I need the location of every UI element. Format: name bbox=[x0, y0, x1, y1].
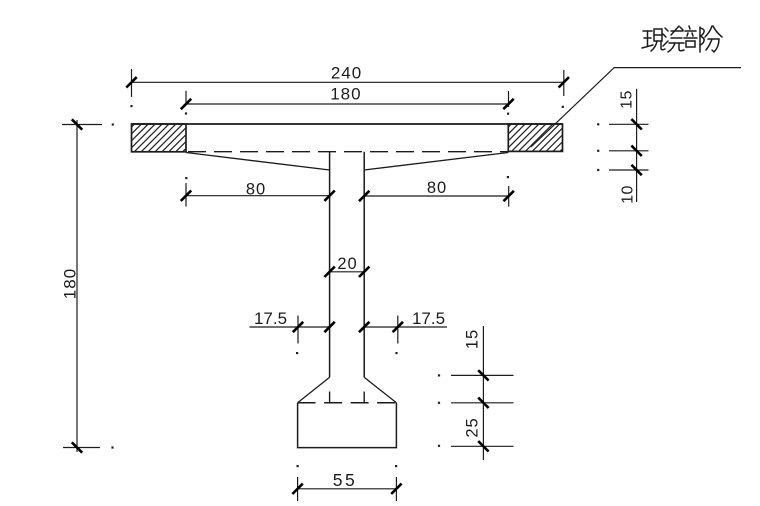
dim 180 vertical left line bbox=[62, 120, 102, 452]
dim 55 ticks bbox=[292, 484, 401, 494]
bulb top hidden dashed edge bbox=[298, 402, 397, 404]
right lower dim ticks bbox=[478, 370, 488, 451]
svg-text:25: 25 bbox=[464, 417, 482, 437]
dashed slab bottom line bbox=[186, 151, 508, 153]
right lower dim group line bbox=[451, 326, 514, 460]
svg-text:15: 15 bbox=[619, 90, 636, 109]
right upper dim dots bbox=[597, 123, 599, 125]
svg-text:55: 55 bbox=[333, 470, 357, 490]
dim 80 left ticks bbox=[181, 191, 335, 201]
svg-text:17.5: 17.5 bbox=[254, 309, 287, 328]
web left edge hidden dash bbox=[329, 392, 331, 403]
dim 55 line bbox=[298, 477, 397, 501]
right lower dim dots bbox=[438, 374, 440, 376]
svg-text:17.5: 17.5 bbox=[412, 309, 445, 328]
dim 240 line bbox=[132, 69, 564, 97]
dim 17.5 right dot bbox=[395, 352, 397, 354]
dim 80 left line bbox=[186, 183, 330, 207]
left chamfer bbox=[298, 377, 330, 403]
svg-text:10: 10 bbox=[620, 185, 637, 204]
dim 17.5 right line bbox=[364, 316, 447, 344]
svg-text:15: 15 bbox=[464, 329, 482, 349]
svg-text:80: 80 bbox=[246, 180, 266, 198]
dim 240 dots bbox=[130, 105, 132, 107]
dim 180 line bbox=[186, 91, 509, 107]
right upper dim group line bbox=[609, 89, 649, 202]
部 bbox=[689, 26, 690, 29]
left cast-in-place hatch box bbox=[107, 124, 211, 152]
right cast-in-place hatch box bbox=[484, 124, 587, 151]
web right edge bbox=[363, 152, 365, 378]
dim 20 line bbox=[330, 271, 365, 273]
dim 17.5 left dot bbox=[296, 352, 298, 354]
flange top edge bbox=[132, 123, 563, 125]
dim 17.5 left line bbox=[250, 316, 330, 344]
label text 现浇部分 (drawn strokes) bbox=[642, 26, 722, 52]
svg-text:180: 180 bbox=[61, 268, 80, 299]
dim 240 ticks bbox=[126, 77, 569, 87]
bulb outline bbox=[298, 403, 397, 448]
dim 80 right line bbox=[364, 186, 509, 207]
分 bbox=[705, 26, 712, 37]
dim 180 ticks bbox=[181, 99, 514, 109]
dim 180 dots bbox=[185, 112, 187, 114]
dim 80 right ticks bbox=[359, 191, 514, 201]
dim 20 ticks bbox=[324, 267, 369, 277]
svg-text:80: 80 bbox=[427, 179, 447, 197]
dim 55 dots bbox=[297, 465, 299, 467]
web right edge hidden dash bbox=[363, 392, 365, 403]
svg-text:180: 180 bbox=[330, 85, 361, 104]
dim 80 left dot bbox=[185, 177, 187, 179]
svg-text:240: 240 bbox=[331, 63, 362, 82]
浇 bbox=[665, 28, 668, 31]
dim 180 vertical dots bbox=[112, 123, 114, 125]
dim 180 vertical ticks bbox=[72, 119, 82, 452]
dim 17.5 left ticks bbox=[293, 322, 335, 332]
right upper dim ticks bbox=[631, 119, 641, 175]
left flange taper underside bbox=[186, 153, 330, 171]
svg-text:20: 20 bbox=[337, 255, 357, 273]
right chamfer bbox=[364, 377, 396, 403]
dim 17.5 right ticks bbox=[359, 322, 403, 332]
web left edge bbox=[329, 152, 331, 378]
dim 80 right dot bbox=[507, 176, 509, 178]
leader line to cast-in-place label bbox=[531, 68, 741, 147]
现 bbox=[643, 30, 652, 32]
right flange taper underside bbox=[364, 153, 508, 171]
